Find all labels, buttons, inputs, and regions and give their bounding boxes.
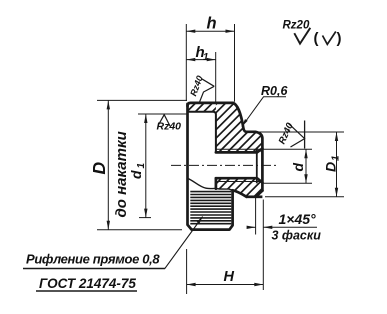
svg-text:h: h xyxy=(207,15,217,33)
svg-text:Rz40: Rz40 xyxy=(157,121,182,133)
svg-text:): ) xyxy=(337,30,342,47)
svg-text:H: H xyxy=(224,269,235,285)
svg-text:1×45°: 1×45° xyxy=(279,211,317,227)
svg-text:3 фаски: 3 фаски xyxy=(272,229,322,243)
svg-text:1: 1 xyxy=(136,163,147,169)
svg-text:d: d xyxy=(290,163,306,172)
svg-text:d: d xyxy=(128,170,144,179)
svg-text:1: 1 xyxy=(203,52,209,63)
svg-text:1: 1 xyxy=(331,155,342,161)
svg-text:до накатки: до накатки xyxy=(113,131,130,217)
svg-text:D: D xyxy=(89,162,109,175)
svg-text:R0,6: R0,6 xyxy=(261,84,288,98)
svg-text:D: D xyxy=(323,162,339,172)
svg-text:ГОСТ 21474-75: ГОСТ 21474-75 xyxy=(39,276,136,291)
svg-text:(: ( xyxy=(314,30,319,47)
svg-text:Рифление прямое 0,8: Рифление прямое 0,8 xyxy=(26,252,160,267)
svg-text:Rz20: Rz20 xyxy=(283,20,310,32)
